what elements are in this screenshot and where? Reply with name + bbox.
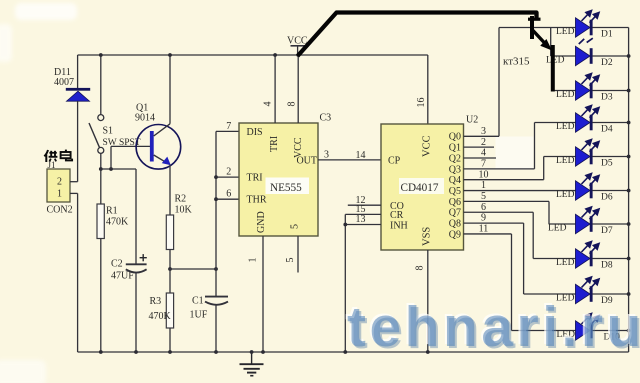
- LED D10: [576, 314, 600, 341]
- svg-text:2: 2: [57, 177, 62, 188]
- junction dot C1 at ground rail: [214, 350, 218, 354]
- background white smudge bottom-left: [0, 360, 46, 383]
- svg-text:D3: D3: [601, 93, 613, 103]
- svg-text:Q6: Q6: [449, 197, 461, 208]
- svg-text:13: 13: [356, 214, 366, 225]
- wire NE555 pin 2 TRI stub: [216, 176, 239, 178]
- wire CD4017 Q4 pin 10 stub: [464, 179, 544, 181]
- svg-text:S1: S1: [103, 126, 114, 137]
- capacitor C1: [205, 297, 228, 305]
- LED D4: [576, 106, 600, 133]
- wire CD4017 Q3 pin 7 stub: [464, 168, 535, 170]
- svg-text:INH: INH: [390, 220, 408, 231]
- junction dot D9 cathode on right rail: [627, 292, 631, 296]
- svg-text:5: 5: [290, 224, 301, 229]
- junction dot D5 cathode on right rail: [627, 155, 631, 159]
- wire NE555 pin 4 to top bus: [274, 55, 276, 123]
- wire Q6 down to LED D7 anode: [548, 201, 550, 224]
- resistor R3: [166, 269, 173, 352]
- svg-text:D2: D2: [601, 58, 613, 68]
- svg-text:9: 9: [481, 213, 486, 224]
- junction dot C2 at ground rail: [134, 350, 138, 354]
- svg-text:D8: D8: [601, 261, 613, 271]
- wire J1 pin 1 down to ground rail: [77, 193, 79, 352]
- wire to LED D2 anode: [551, 55, 576, 57]
- svg-text:кт315: кт315: [503, 56, 530, 68]
- wire right end of top bus down to U2 pin 16: [427, 55, 429, 124]
- op-amp/timer U1 NE555 body: [239, 123, 318, 236]
- svg-text:9014: 9014: [135, 113, 155, 124]
- wire VCC top bus: [78, 54, 428, 56]
- svg-text:C3: C3: [320, 113, 332, 124]
- svg-text:C1: C1: [192, 296, 204, 307]
- svg-text:CP: CP: [388, 156, 401, 167]
- wire bottom ground rail: [78, 351, 629, 353]
- wire Q8 down to LED D9 anode: [523, 223, 525, 294]
- LED D5: [576, 140, 600, 167]
- wire CD4017 Q0 pin 3 stub: [464, 135, 500, 137]
- wire NE555 pin 5 stub dangling: [297, 236, 299, 273]
- svg-text:6: 6: [226, 189, 231, 200]
- wire capacitor C1 down to ground rail: [215, 305, 217, 352]
- wire capacitor C2 down to ground rail: [135, 273, 137, 352]
- ground symbol: [240, 352, 264, 376]
- background white smudge left edge: [0, 24, 12, 62]
- junction dot D7 cathode on right rail: [627, 222, 631, 226]
- svg-text:4007: 4007: [54, 77, 74, 88]
- wire CR/INH down to ground rail: [344, 214, 346, 352]
- svg-text:Q9: Q9: [449, 229, 461, 240]
- transistor KT315 hand-drawn: [528, 16, 553, 92]
- wire LED D9 cathode to right rail: [592, 293, 628, 295]
- LED D3: [576, 74, 600, 101]
- wire Q0 up to LED D1 anode: [498, 28, 500, 137]
- svg-text:10K: 10K: [175, 205, 193, 216]
- capacitor C2 plus polarity sign: [140, 254, 147, 261]
- svg-text:11: 11: [479, 224, 489, 235]
- wire top bus down to diode D11 cathode: [77, 55, 79, 89]
- wire node down to capacitor C1: [215, 269, 217, 297]
- wire LED D10 cathode to right rail: [592, 330, 628, 332]
- junction dot D2 cathode on right rail: [627, 54, 631, 58]
- svg-text:U2: U2: [466, 115, 478, 126]
- svg-text:LED: LED: [556, 258, 575, 268]
- junction dot D8 cathode on right rail: [627, 257, 631, 261]
- resistor R2: [166, 215, 173, 269]
- svg-text:LED: LED: [556, 27, 575, 37]
- junction dot base branch: [109, 167, 113, 171]
- wire CD4017 pin 13 INH stub: [345, 224, 381, 226]
- wire NE555 pin 7 DIS stub: [216, 130, 239, 132]
- junction dot D6 cathode on right rail: [627, 189, 631, 193]
- junction dot D4 cathode on right rail: [627, 121, 631, 125]
- LED D6: [576, 174, 600, 201]
- wire junction down to capacitor C2: [135, 169, 137, 264]
- svg-text:Q3: Q3: [449, 164, 461, 175]
- LED D8: [576, 242, 600, 269]
- svg-text:D1: D1: [601, 30, 613, 40]
- junction dot Q1 collector on top bus: [168, 53, 172, 57]
- svg-text:16: 16: [416, 98, 427, 108]
- wire LED D2 cathode to right rail: [592, 55, 628, 57]
- capacitor C2 electrolytic: [126, 264, 147, 272]
- junction dot TRI node: [214, 175, 218, 179]
- svg-text:D4: D4: [601, 125, 613, 135]
- svg-text:THR: THR: [247, 195, 267, 206]
- diode D11: [66, 88, 90, 101]
- junction dot R3 at ground rail: [168, 350, 172, 354]
- wire J1 pin 1 stub: [70, 192, 78, 194]
- svg-text:D7: D7: [601, 226, 613, 236]
- junction dot R1 at ground rail: [99, 350, 103, 354]
- svg-text:Q5: Q5: [449, 186, 461, 197]
- wire CD4017 Q9 pin 11 stub: [464, 233, 512, 235]
- svg-text:3: 3: [481, 126, 486, 137]
- LED D7: [576, 207, 600, 234]
- svg-text:LED: LED: [556, 190, 575, 200]
- wire switch S1 bottom to junction: [100, 153, 102, 169]
- svg-text:DIS: DIS: [247, 127, 263, 138]
- junction dot below switch: [99, 167, 103, 171]
- wire CD4017 pin 12 CO stub: [348, 204, 381, 206]
- svg-text:10: 10: [479, 169, 489, 180]
- wire top bus down to switch S1: [100, 55, 102, 115]
- svg-text:14: 14: [356, 150, 366, 161]
- svg-text:Q1: Q1: [449, 143, 461, 154]
- wire NE555 pin 6 THR stub: [216, 198, 239, 200]
- junction dot D10 cathode on right rail: [627, 329, 631, 333]
- svg-text:1: 1: [248, 258, 259, 263]
- svg-text:TRI: TRI: [269, 136, 280, 152]
- wire LED cathode rail right side: [628, 28, 630, 353]
- junction dot R2 R3 node: [168, 267, 172, 271]
- svg-text:GND: GND: [256, 211, 267, 233]
- svg-text:R2: R2: [175, 194, 187, 205]
- junction dot THR node: [214, 197, 218, 201]
- svg-text:VCC: VCC: [293, 137, 304, 158]
- svg-text:2: 2: [226, 167, 231, 178]
- svg-text:470K: 470K: [106, 217, 129, 228]
- svg-text:LED: LED: [548, 224, 567, 234]
- LED D2: [576, 38, 593, 65]
- svg-text:8: 8: [415, 266, 426, 271]
- wire D1 anode down to D2 anode: [550, 28, 552, 57]
- wire CD4017 Q2 pin 4 stub: [464, 157, 497, 159]
- wire Q7 down to LED D8 anode: [532, 212, 534, 258]
- svg-text:CD4017: CD4017: [401, 182, 439, 194]
- svg-text:470K: 470K: [149, 311, 172, 322]
- wire CD4017 pin 8 VSS down to rail: [427, 250, 429, 352]
- wire CD4017 Q1 pin 2 stub: [464, 146, 495, 148]
- svg-text:4: 4: [481, 148, 486, 159]
- power label 供电 (drawn strokes): [44, 150, 72, 162]
- svg-text:Q7: Q7: [449, 208, 461, 219]
- junction dot pin1 at rail: [261, 350, 265, 354]
- wire NE555 OUT pin3 to CD4017 CP pin14: [318, 159, 381, 161]
- wire junction to C2 branch: [101, 168, 136, 170]
- wire CD4017 pin 15 CR stub: [345, 213, 381, 215]
- wire LED D5 cathode to right rail: [592, 156, 628, 158]
- svg-text:TRI: TRI: [247, 173, 263, 184]
- junction dot CR/INH at rail: [343, 350, 347, 354]
- svg-text:D5: D5: [601, 159, 613, 169]
- wire LED D6 cathode to right rail: [592, 190, 628, 192]
- svg-text:VSS: VSS: [422, 227, 433, 246]
- connector J1 body: [47, 169, 70, 202]
- power symbol VCC: [287, 36, 308, 55]
- junction dot node at C1 line: [214, 267, 218, 271]
- junction dot INH node: [343, 223, 347, 227]
- background white smudge top-left: [15, 3, 77, 20]
- svg-text:5: 5: [481, 191, 486, 202]
- switch S1: [89, 115, 104, 154]
- junction dot D3 cathode on right rail: [627, 89, 631, 93]
- wire CD4017 Q5 pin 1 stub: [464, 190, 576, 192]
- wire Q1 collector to top bus: [169, 55, 171, 124]
- wire Q1 emitter down to R2: [169, 165, 171, 216]
- LED D1: [576, 11, 600, 38]
- LED D9: [576, 277, 600, 304]
- svg-text:Q8: Q8: [449, 219, 461, 230]
- counter U2 CD4017 body: [381, 124, 464, 250]
- svg-text:C2: C2: [111, 259, 123, 270]
- junction dot pin 8 on top bus: [296, 53, 300, 57]
- wire Q9 down to LED D10 anode: [511, 234, 513, 331]
- junction dot pin 4 on top bus: [273, 53, 277, 57]
- junction dot ground symbol at rail: [250, 350, 254, 354]
- svg-text:VCC: VCC: [422, 135, 433, 157]
- wire LED D3 cathode to right rail: [592, 90, 628, 92]
- svg-text:NE555: NE555: [270, 182, 302, 194]
- svg-text:47UF: 47UF: [111, 271, 134, 282]
- svg-text:Q2: Q2: [449, 153, 461, 164]
- wire CD4017 Q7 pin 6 stub: [464, 211, 534, 213]
- svg-text:1: 1: [481, 180, 486, 191]
- junction dot switch branch on top bus: [99, 53, 103, 57]
- svg-text:7: 7: [226, 121, 231, 132]
- wire to LED D3 anode: [553, 90, 576, 92]
- wire LED D8 cathode to right rail: [592, 258, 628, 260]
- wire NE555 pin 1 GND down to rail: [262, 236, 264, 352]
- svg-text:8: 8: [287, 102, 298, 107]
- NE555 inner white label plate: [266, 178, 310, 195]
- svg-text:LED: LED: [546, 56, 565, 66]
- svg-text:Q4: Q4: [449, 175, 461, 186]
- svg-text:6: 6: [481, 202, 486, 213]
- svg-text:LED: LED: [556, 90, 575, 100]
- svg-text:7: 7: [481, 158, 486, 169]
- wire Q4 up to LED D5 anode: [543, 157, 545, 180]
- svg-text:R1: R1: [106, 206, 118, 217]
- wire NE555 pin 8 to top bus: [297, 55, 299, 123]
- CD4017 inner white label plate: [399, 178, 444, 194]
- svg-text:1: 1: [57, 189, 62, 200]
- svg-text:LED: LED: [556, 122, 575, 132]
- wire LED D1 cathode to right rail: [592, 27, 628, 29]
- svg-text:3: 3: [324, 150, 329, 161]
- hand-drawn thick wire VCC to KT315 collector: [298, 13, 537, 57]
- transistor Q1 9014: [136, 124, 181, 169]
- svg-text:LED: LED: [556, 156, 575, 166]
- junction dot pin 8 at rail: [426, 350, 430, 354]
- resistor R1: [97, 169, 104, 352]
- svg-text:1UF: 1UF: [190, 310, 208, 321]
- wire up to Q1 base: [110, 146, 112, 169]
- svg-text:D6: D6: [601, 193, 613, 203]
- svg-text:5: 5: [285, 258, 296, 263]
- white correction patch over erased Q1/Q2 wires: [496, 137, 534, 170]
- wire Q3 up to LED D4 anode: [534, 123, 536, 169]
- wire CD4017 Q8 pin 9 stub: [464, 222, 524, 224]
- svg-text:2: 2: [481, 137, 486, 148]
- wire J1 pin 2 stub: [70, 181, 78, 183]
- wire LED D7 cathode to right rail: [592, 223, 628, 225]
- wire R2/R3 node to THR/TRI line: [170, 268, 216, 270]
- svg-text:R3: R3: [150, 296, 162, 307]
- wire diode D11 anode down to J1 pin 2: [77, 101, 79, 182]
- watermark tehnari.ru: [347, 299, 640, 356]
- svg-text:Q0: Q0: [449, 132, 461, 143]
- wire NE555 DIS/TRI/THR common vertical: [215, 131, 217, 269]
- wire CD4017 Q6 pin 5 stub: [464, 200, 550, 202]
- svg-text:4: 4: [263, 102, 274, 107]
- svg-text:CON2: CON2: [47, 205, 73, 216]
- wire LED D4 cathode to right rail: [592, 122, 628, 124]
- svg-text:J1: J1: [48, 160, 56, 170]
